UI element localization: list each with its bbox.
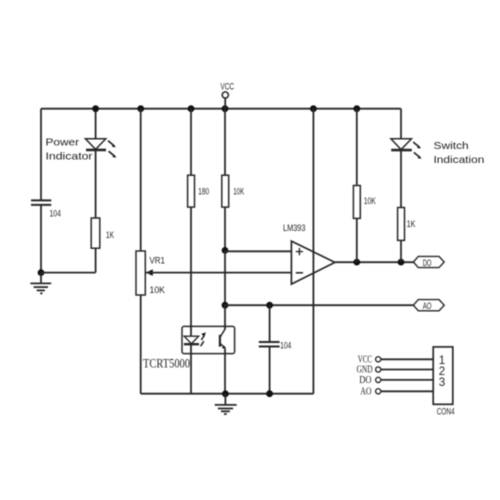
LED D1 power indicator [85, 139, 106, 150]
svg-text:Indication: Indication [434, 154, 485, 166]
svg-text:VR1: VR1 [150, 256, 165, 267]
wire resistor to bottom wire [95, 248, 97, 272]
node dot plus input [222, 247, 229, 254]
wire 10K right to output [356, 218, 358, 262]
wire rail corner to switch LED [400, 109, 402, 139]
svg-text:TCRT5000: TCRT5000 [143, 356, 190, 371]
connector pin circle DO [376, 377, 381, 382]
node dot rail 180 branch [188, 105, 195, 112]
resistor R1 1K (left) [91, 218, 100, 248]
svg-text:DO: DO [359, 375, 372, 386]
node dot rail power branch [92, 105, 99, 112]
wire op-amp output to DO [335, 261, 414, 263]
op-amp plus sign [296, 248, 303, 255]
resistor R5 1K (right) [398, 208, 405, 241]
VCC terminal circle [222, 92, 228, 98]
wire GND pin to CON4 [381, 369, 433, 371]
VR1 wiper arrow [146, 269, 153, 276]
resistor R4 10K (right) [353, 186, 360, 219]
wire left drop to capacitor [40, 109, 42, 200]
wire AO pin to CON4 [381, 390, 433, 392]
node dot rail 10K right branch [353, 105, 360, 112]
wire bottom ground rail [141, 393, 314, 395]
wire capacitor to bottom rail [269, 347, 271, 394]
wire VCC pin to CON4 [381, 358, 433, 360]
LED D1 emission arrows [108, 141, 116, 158]
wire capacitor to ground node [40, 205, 42, 273]
connector pin circle AO [376, 389, 381, 394]
node dot output 1K right [398, 259, 405, 266]
node dot capacitor ground [266, 390, 273, 397]
wire AO node to capacitor 104 [269, 305, 271, 342]
wire 180 to TCRT LED anode [190, 207, 192, 336]
wire rail to VR1 [140, 109, 142, 251]
svg-text:104: 104 [50, 208, 61, 219]
svg-text:CON4: CON4 [437, 406, 455, 417]
wire AO line [225, 304, 414, 306]
svg-text:1K: 1K [106, 230, 115, 241]
svg-text:Indicator: Indicator [46, 151, 94, 163]
svg-text:180: 180 [198, 186, 209, 197]
node dot rail 10K branch [222, 105, 229, 112]
wire VCC stub [224, 98, 226, 109]
LED D2 emission arrows [413, 142, 421, 159]
wire DO pin to CON4 [381, 379, 433, 381]
wire op-amp supply VCC to GND vertical [312, 109, 314, 394]
wire transistor emitter to ground rail [224, 349, 226, 394]
port tag DO [413, 256, 444, 267]
svg-text:AO: AO [423, 301, 432, 312]
connector CON4 body [433, 347, 453, 404]
svg-text:3: 3 [439, 377, 445, 389]
svg-text:DO: DO [423, 258, 432, 269]
TCRT5000 sensor U2 box [182, 326, 235, 353]
ground GND (left) [30, 273, 51, 294]
node dot output 10K right [353, 259, 360, 266]
svg-text:Power: Power [46, 137, 80, 149]
TCRT5000 internal LED [184, 336, 199, 344]
wire 10K to plus node [224, 207, 226, 250]
op-amp minus sign [296, 272, 303, 274]
wire op-amp minus input from VR1 wiper [146, 272, 291, 274]
wire plus node down to collector node [224, 250, 226, 305]
op-amp U1 LM393 [291, 241, 335, 284]
wire collector node down to transistor [224, 305, 226, 329]
svg-text:10K: 10K [364, 196, 376, 207]
wire LED to resistor 1K [95, 150, 97, 218]
svg-text:10K: 10K [150, 285, 166, 296]
resistor R2 180 [188, 175, 195, 207]
capacitor C1 104 [31, 200, 51, 205]
node dot AO capacitor tap [266, 302, 273, 309]
ground GND (center) [215, 394, 237, 414]
TCRT5000 light bolt arrow [201, 332, 206, 346]
node dot left ground [38, 269, 45, 276]
node dot collector / AO [222, 302, 229, 309]
wire bottom of power section [41, 272, 96, 274]
wire rail to resistor 180 [190, 109, 192, 176]
capacitor C2 104 [259, 342, 280, 347]
svg-text:104: 104 [280, 341, 291, 352]
connector pin circle GND [376, 367, 381, 372]
wire op-amp plus input [225, 250, 291, 252]
resistor R3 10K (middle) [222, 175, 229, 207]
potentiometer VR1 10K [136, 251, 145, 295]
svg-text:10K: 10K [233, 186, 244, 197]
wire switch LED to 1K right [400, 150, 402, 207]
node dot emitter ground [222, 390, 229, 397]
node dot rail opamp supply [310, 105, 317, 112]
port tag AO [413, 300, 444, 311]
LED D2 switch indication [391, 139, 412, 150]
svg-text:Switch: Switch [434, 140, 469, 152]
svg-text:VCC: VCC [220, 81, 234, 92]
svg-text:1K: 1K [407, 219, 416, 230]
svg-text:AO: AO [360, 387, 372, 398]
node dot rail VR1 branch [137, 105, 144, 112]
wire rail to 10K right [356, 109, 358, 186]
wire rail to resistor 10K mid [224, 109, 226, 176]
wire VR1 to bottom rail [140, 295, 142, 394]
TCRT5000 phototransistor [220, 329, 226, 349]
wire 1K right to output [400, 240, 402, 262]
svg-text:LM393: LM393 [283, 223, 306, 234]
connector pin circle VCC [376, 357, 381, 362]
wire top VCC rail [41, 108, 401, 110]
wire TCRT LED cathode to ground rail [190, 344, 192, 394]
wire rail to power LED [95, 109, 97, 139]
